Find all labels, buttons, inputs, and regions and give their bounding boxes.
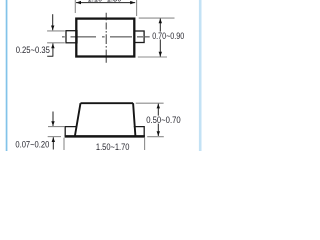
wire up arrow of 0.25~0.35	[47, 43, 53, 56]
svg-text:0.25~0.35: 0.25~0.35	[16, 45, 50, 55]
diode D1 side view base lead line	[65, 135, 145, 138]
svg-text:0.07~0.20: 0.07~0.20	[15, 139, 49, 149]
node label 0.70~0.90	[151, 32, 184, 40]
wire ext line body top right	[139, 17, 175, 19]
diode D1 side view body	[75, 103, 135, 136]
svg-text:1.50~1.70: 1.50~1.70	[96, 142, 130, 151]
wire vertical dim line 0.50~0.70	[157, 104, 159, 136]
wire ext line bottom dim right	[144, 138, 146, 150]
wire ext line left of top dim	[74, 0, 76, 13]
wire up arrow of 0.07~0.20	[52, 137, 54, 149]
wire	[6, 0, 8, 151]
node H-centerline top view	[62, 36, 150, 38]
diode D1 top view body	[76, 19, 134, 57]
wire ext line body bottom right	[138, 56, 167, 58]
wire ext line side body bottom	[147, 136, 164, 138]
wire down arrow of 0.25~0.35	[52, 14, 54, 30]
wire ext line bottom dim left	[63, 138, 65, 150]
wire ext line right of top dim	[136, 0, 138, 16]
node label 0.50~0.70	[145, 116, 181, 124]
wire ext line side body top	[136, 102, 164, 104]
diode D1 top view right lead tab	[134, 31, 144, 43]
svg-text:0.70~0.90: 0.70~0.90	[152, 31, 184, 41]
wire ext line lead bottom left	[48, 136, 61, 138]
wire ext line tab bottom	[47, 42, 65, 44]
diode D1 side view left lead	[65, 127, 77, 137]
diode D1 top view left lead tab	[66, 31, 77, 43]
svg-text:1.10~1.30: 1.10~1.30	[88, 0, 122, 4]
wire ext line lead top left	[48, 126, 64, 128]
wire top dimension line	[76, 2, 135, 4]
wire ext line tab top	[47, 30, 65, 32]
wire vertical dim line 0.70~0.90	[159, 18, 161, 56]
wire	[199, 0, 202, 151]
node V-centerline top view	[105, 13, 107, 63]
diode D1 side view right lead	[134, 127, 144, 137]
svg-text:0.50~0.70: 0.50~0.70	[146, 115, 181, 125]
wire down arrow of 0.07~0.20	[52, 112, 54, 127]
